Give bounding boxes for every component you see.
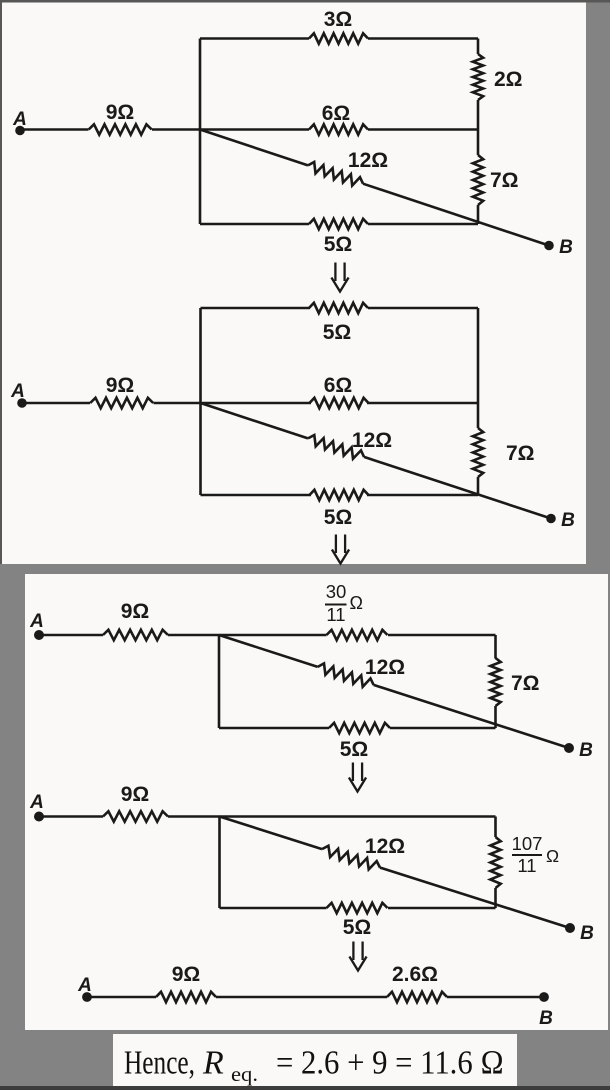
node B (circuit 2) xyxy=(546,514,556,524)
bottom branch wire left (circuit 4) xyxy=(220,907,327,910)
resistor 6&#937; (circuit 2) xyxy=(310,398,369,408)
resistor 5&#937; bottom (circuit 2) xyxy=(310,490,369,500)
wire 2.6&#937; to node B (circuit 5) xyxy=(447,996,544,999)
svg-text:A: A xyxy=(12,109,27,130)
label 107/11 bar (circuit 4) xyxy=(512,854,542,856)
wire 6&#937; branch right (circuit 2) xyxy=(367,402,478,405)
svg-text:5Ω: 5Ω xyxy=(340,738,369,761)
node B (circuit 3) xyxy=(564,743,574,753)
paper panel 2 xyxy=(25,574,608,1030)
wire A to R 9&#937; (circuit 2) xyxy=(22,402,90,405)
wire 9&#937; to junction (circuit 1) xyxy=(152,128,200,131)
reduction arrow 1 xyxy=(334,263,336,282)
svg-text:7Ω: 7Ω xyxy=(506,442,535,465)
svg-text:6Ω: 6Ω xyxy=(324,374,353,397)
svg-text:7Ω: 7Ω xyxy=(490,169,519,192)
svg-text:A: A xyxy=(29,792,44,813)
svg-text:2Ω: 2Ω xyxy=(494,68,523,91)
svg-text:eq.: eq. xyxy=(231,1062,258,1086)
resistor 9&#937; (circuit 4) xyxy=(103,811,168,821)
svg-text:5Ω: 5Ω xyxy=(323,321,352,344)
wire 9&#937; to junction (circuit 3) xyxy=(168,634,219,637)
resistor 12&#937; (circuit 2) xyxy=(308,435,364,459)
paper panel 1 xyxy=(2,3,586,565)
wire 9&#937; to junction (circuit 2) xyxy=(154,402,201,405)
resistor 107/11&#937; (circuit 4) xyxy=(490,837,500,888)
node A (circuit 5) xyxy=(82,992,92,1002)
right vertical wire bottom (circuit 4) xyxy=(494,888,497,908)
wire A to R 9&#937; (circuit 3) xyxy=(39,634,103,637)
diagonal wire junction to 12&#937; (circuit 4) xyxy=(220,817,323,850)
wire 9&#937; to R 2.6&#937; (circuit 5) xyxy=(216,996,387,999)
resistor 2.6&#937; (circuit 5) xyxy=(387,992,447,1002)
resistor 12&#937; (circuit 3) xyxy=(318,663,374,686)
diagonal wire 12&#937; to node B (circuit 3) xyxy=(374,685,569,748)
label 30/11 bar (circuit 3) xyxy=(325,604,347,606)
wire junction to R 30/11 (circuit 3) xyxy=(219,634,327,637)
svg-text:9Ω: 9Ω xyxy=(121,783,150,806)
svg-text:9Ω: 9Ω xyxy=(172,963,201,986)
node B (circuit 4) xyxy=(565,923,575,933)
resistor 6&#937; (circuit 1) xyxy=(309,124,368,134)
svg-text:11: 11 xyxy=(326,604,345,625)
resistor 3&#937; (circuit 1) xyxy=(309,33,368,43)
right vertical wire bottom (circuit 1) xyxy=(477,205,480,224)
svg-text:2.6Ω: 2.6Ω xyxy=(392,963,438,986)
svg-text:12Ω: 12Ω xyxy=(365,656,405,679)
left vertical wire (circuit 4) xyxy=(218,817,221,909)
svg-text:12Ω: 12Ω xyxy=(365,835,405,858)
resistor 9&#937; (circuit 3) xyxy=(103,630,168,640)
resistor 5&#937; (circuit 1) xyxy=(309,219,368,229)
wire 6&#937; branch left (circuit 1) xyxy=(200,128,309,131)
bottom branch wire left (circuit 2) xyxy=(201,494,312,497)
bottom branch wire right (circuit 4) xyxy=(388,907,496,910)
svg-text:7Ω: 7Ω xyxy=(511,672,540,695)
svg-text:B: B xyxy=(579,740,593,761)
page left border xyxy=(0,0,2,564)
right vertical wire bottom (circuit 3) xyxy=(494,706,497,728)
svg-text:11: 11 xyxy=(517,855,536,876)
svg-text:R: R xyxy=(202,1045,224,1082)
svg-text:30: 30 xyxy=(326,581,347,602)
svg-text:3Ω: 3Ω xyxy=(324,8,353,31)
diagonal wire 12&#937; to node B (circuit 1) xyxy=(363,184,549,246)
node A (circuit 1) xyxy=(15,126,25,136)
diagonal wire junction to 12&#937; (circuit 3) xyxy=(219,635,318,667)
top branch wire (circuit 4) xyxy=(220,815,496,818)
reduction arrow 4 xyxy=(352,942,354,961)
right vertical wire top (circuit 4) xyxy=(494,817,497,838)
svg-text:Ω: Ω xyxy=(546,846,559,866)
diagonal wire 12&#937; to node B (circuit 2) xyxy=(364,457,551,519)
right vertical wire bottom (circuit 2) xyxy=(477,477,480,495)
reduction arrow 2 xyxy=(335,535,337,554)
page bottom border xyxy=(0,1086,610,1090)
right vertical wire top (circuit 2) xyxy=(477,308,480,428)
wire A to R 9&#937; (circuit 1) xyxy=(20,128,89,131)
svg-text:9Ω: 9Ω xyxy=(106,374,135,397)
right vertical wire top (circuit 3) xyxy=(494,635,497,659)
svg-text:5Ω: 5Ω xyxy=(324,506,353,529)
resistor 5&#937; (circuit 3) xyxy=(329,723,390,733)
top branch wire left (circuit 2) xyxy=(201,307,311,310)
svg-text:6Ω: 6Ω xyxy=(322,102,351,125)
left vertical wire (circuit 3) xyxy=(218,635,221,728)
wire 30/11 to right vertical (circuit 3) xyxy=(388,634,496,637)
bottom branch wire left (circuit 3) xyxy=(219,727,329,730)
svg-text:12Ω: 12Ω xyxy=(348,149,388,172)
svg-text:5Ω: 5Ω xyxy=(324,233,353,256)
top branch wire right (circuit 1) xyxy=(368,37,478,40)
top branch wire right (circuit 2) xyxy=(368,307,478,310)
svg-text:B: B xyxy=(539,1008,553,1029)
resistor 7&#937; (circuit 2) xyxy=(473,428,483,477)
svg-text:107: 107 xyxy=(512,833,543,854)
svg-text:A: A xyxy=(29,611,44,632)
svg-text:9Ω: 9Ω xyxy=(121,600,150,623)
page top border xyxy=(0,0,610,3)
svg-text:A: A xyxy=(10,381,25,402)
resistor 9&#937; (circuit 5) xyxy=(156,992,216,1002)
wire A to R 9&#937; (circuit 4) xyxy=(39,815,103,818)
resistor 12&#937; (circuit 1) xyxy=(308,162,363,186)
svg-text:B: B xyxy=(580,923,594,944)
svg-text:12Ω: 12Ω xyxy=(352,429,392,452)
bottom branch wire right (circuit 1) xyxy=(368,223,478,226)
diagonal wire junction to 12&#937; (circuit 2) xyxy=(201,403,309,438)
left vertical wire (circuit 1) xyxy=(199,39,202,225)
node A (circuit 3) xyxy=(34,630,44,640)
caption paper box xyxy=(113,1034,517,1086)
bottom branch wire right (circuit 2) xyxy=(367,494,478,497)
wire A to R 9&#937; (circuit 5) xyxy=(87,996,156,999)
node B (circuit 5) xyxy=(539,992,549,1002)
svg-text:5Ω: 5Ω xyxy=(343,916,372,939)
svg-text:Hence,: Hence, xyxy=(124,1045,195,1082)
resistor 9&#937; (circuit 2) xyxy=(90,398,153,408)
svg-text:A: A xyxy=(77,975,92,996)
node B (circuit 1) xyxy=(544,241,554,251)
top branch wire left (circuit 1) xyxy=(200,37,309,40)
resistor 7&#937; (circuit 1) xyxy=(473,155,483,205)
diagonal wire 12&#937; to node B (circuit 4) xyxy=(380,868,570,928)
svg-text:B: B xyxy=(559,237,573,258)
resistor 9&#937; (circuit 1) xyxy=(89,124,152,134)
resistor 12&#937; (circuit 4) xyxy=(322,846,380,870)
reduction arrow 3 xyxy=(352,763,354,782)
svg-text:Ω: Ω xyxy=(350,593,363,613)
diagonal wire junction to 12&#937; (circuit 1) xyxy=(200,130,308,166)
bottom branch wire left (circuit 1) xyxy=(200,223,309,226)
right vertical wire mid (circuit 1) xyxy=(477,100,480,155)
svg-text:= 2.6 + 9 = 11.6 Ω: = 2.6 + 9 = 11.6 Ω xyxy=(276,1045,504,1082)
resistor 7&#937; (circuit 3) xyxy=(490,658,500,706)
resistor 5&#937; top (circuit 2) xyxy=(309,303,368,313)
node A (circuit 4) xyxy=(34,812,44,822)
bottom branch wire right (circuit 3) xyxy=(390,727,496,730)
resistor 30/11&#937; (circuit 3) xyxy=(327,630,388,640)
wire 6&#937; branch left (circuit 2) xyxy=(201,402,312,405)
svg-text:9Ω: 9Ω xyxy=(106,101,135,124)
left vertical wire (circuit 2) xyxy=(199,308,202,495)
resistor 2&#937; (circuit 1) xyxy=(473,54,483,100)
resistor 5&#937; (circuit 4) xyxy=(327,903,388,913)
right vertical wire top (circuit 1) xyxy=(477,39,480,55)
svg-text:B: B xyxy=(561,510,575,531)
wire 6&#937; branch right (circuit 1) xyxy=(368,128,478,131)
node A (circuit 2) xyxy=(17,398,27,408)
wire 9&#937; to junction (circuit 4) xyxy=(168,815,220,818)
